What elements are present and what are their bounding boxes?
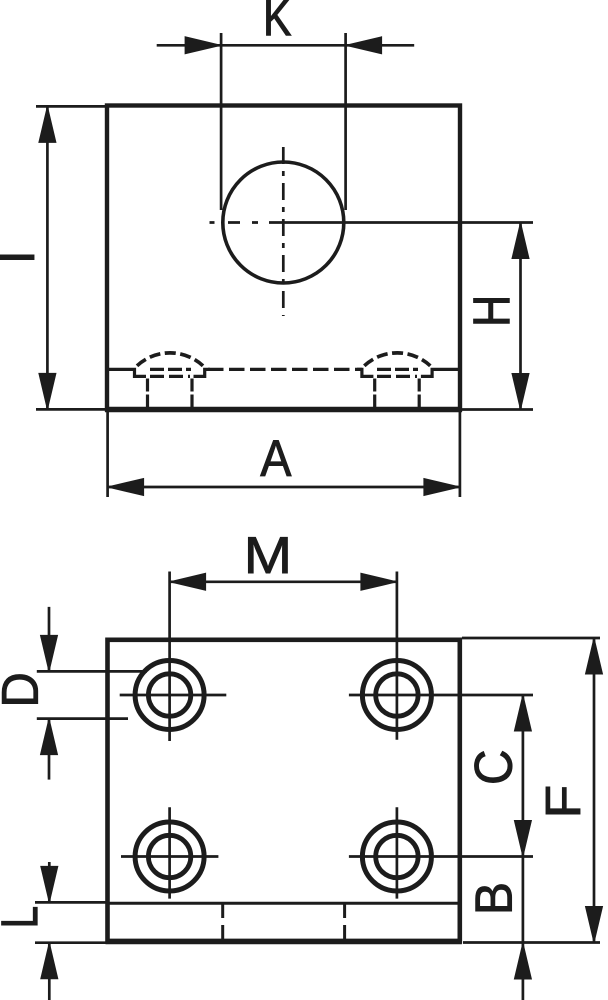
K arrow right: [346, 37, 382, 54]
label K: [267, 0, 292, 35]
H arrow top: [512, 223, 529, 259]
H arrow bottom: [512, 374, 529, 410]
bottom view outline: [108, 640, 460, 942]
L bottom extension line: [35, 941, 107, 944]
label M: [248, 537, 287, 573]
bore hole circle: [223, 162, 344, 283]
label C (rotated): [475, 751, 513, 782]
hole top-right outer: [362, 661, 431, 730]
label H (rotated): [474, 298, 510, 323]
K left extension line: [220, 33, 223, 210]
I arrow top: [39, 106, 56, 142]
hole bottom-left cross: [121, 807, 218, 898]
front view outline: [107, 106, 460, 410]
I dimension line: [46, 106, 49, 409]
hole top-left cross: [120, 652, 227, 741]
D arrow bottom: [41, 719, 58, 755]
label I (rotated): [0, 255, 34, 260]
label A: [260, 440, 291, 476]
hole bottom-right cross: [349, 807, 533, 898]
front view bottom edge emphasis: [105, 407, 462, 412]
strip divider left (dashed): [221, 904, 224, 942]
L dimension line bottom: [48, 943, 51, 1000]
K dimension line left: [157, 44, 415, 47]
hidden line under dome right: [377, 368, 418, 371]
C arrow bottom: [514, 821, 531, 857]
hole top-left outer: [135, 661, 204, 730]
D arrow top: [41, 635, 58, 671]
C dimension line: [522, 695, 525, 857]
hole bottom-right inner: [376, 835, 418, 877]
A dimension line: [108, 486, 460, 489]
bottom strip line: [108, 902, 460, 905]
bottom pocket right (solid step outline): [357, 369, 373, 376]
hole top-right inner: [376, 674, 418, 716]
bottom view bottom edge emphasis: [106, 939, 462, 945]
I bottom extension line: [36, 408, 105, 411]
D dimension line bottom: [48, 719, 51, 780]
M left extension line: [168, 572, 171, 653]
I top extension line: [36, 105, 105, 108]
label B (rotated): [476, 885, 512, 912]
bottom pocket left (solid step outline): [109, 369, 146, 376]
hidden screw head dome left (dashed arc): [137, 353, 203, 366]
hole bottom-left outer: [135, 822, 204, 891]
M arrow left: [170, 573, 206, 590]
vertical centerline of bore: [282, 147, 285, 316]
H top reference line (centerline extension to right): [269, 221, 533, 224]
hole bottom-right outer: [362, 822, 431, 891]
F top extension line: [462, 637, 600, 640]
hidden hole wall left-right (dashed): [190, 379, 193, 408]
horizontal centerline of bore (left dash-dot part): [210, 221, 259, 224]
M dimension line: [170, 580, 397, 583]
strip divider right (dashed): [343, 904, 346, 942]
label F (rotated): [546, 787, 580, 814]
label L (rotated): [2, 907, 38, 925]
hidden slot line between pockets (dashed): [208, 368, 362, 371]
L arrow bottom: [41, 943, 58, 979]
hidden hole wall right-left (dashed): [373, 379, 376, 408]
L dimension line top: [48, 862, 51, 902]
hidden hole wall left-left (dashed): [146, 379, 149, 408]
hole top-right cross: [349, 652, 533, 740]
hole top-left inner: [148, 674, 190, 716]
D top extension line: [37, 670, 147, 673]
D dimension line top: [48, 607, 51, 672]
F bottom extension line: [463, 941, 600, 944]
B dimension line (continues off bottom): [522, 857, 525, 1000]
I arrow bottom: [39, 373, 56, 409]
label D (rotated): [2, 675, 38, 704]
D bottom extension line: [37, 717, 128, 720]
F arrow top: [586, 638, 603, 674]
L arrow top: [41, 866, 58, 902]
H bottom extension line: [462, 408, 533, 411]
A arrow left: [108, 479, 144, 496]
A arrow right: [424, 479, 460, 496]
F dimension line: [593, 638, 596, 943]
bottom pocket right dashed bottom: [377, 375, 417, 378]
L top extension line: [35, 901, 107, 904]
K right extension line: [344, 33, 347, 210]
F arrow bottom: [586, 907, 603, 943]
hidden hole wall right-right (dashed): [418, 379, 421, 408]
M right extension line: [396, 572, 399, 653]
bottom pocket left dashed bottom: [150, 375, 190, 378]
A left extension line: [106, 412, 109, 497]
hidden line under dome left: [150, 368, 191, 371]
M arrow right: [361, 573, 397, 590]
H dimension line: [519, 223, 522, 410]
B arrow bottom (pointing up at bottom edge): [514, 943, 531, 979]
hole bottom-left inner: [148, 835, 190, 877]
C arrow top: [514, 695, 531, 731]
A right extension line: [459, 412, 462, 497]
K arrow left: [185, 37, 221, 54]
hidden screw head dome right (dashed arc): [364, 353, 430, 366]
